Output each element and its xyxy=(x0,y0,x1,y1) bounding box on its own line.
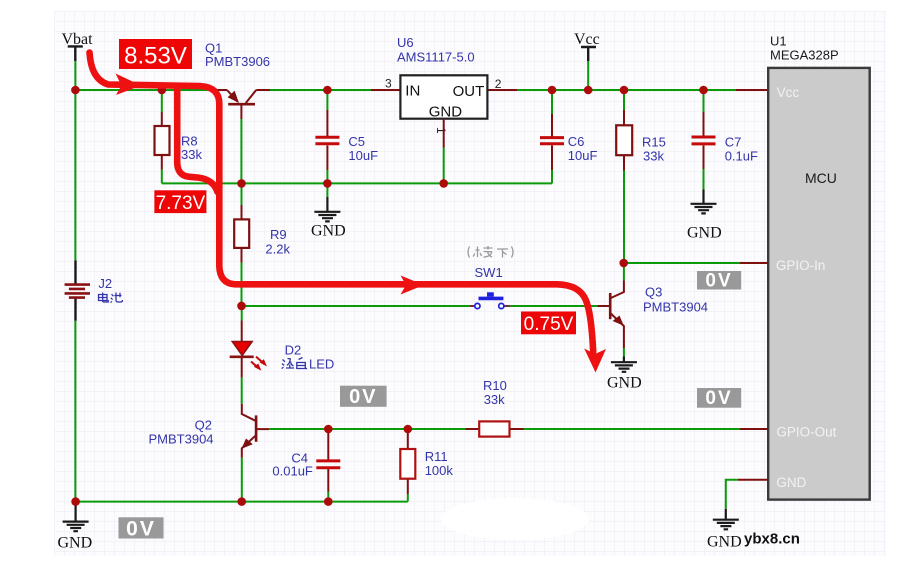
value box 8.53V xyxy=(119,39,192,70)
wire U6 GND pin xyxy=(443,119,445,184)
svg-text:0V: 0V xyxy=(349,386,377,408)
capacitor C7 xyxy=(692,90,759,190)
svg-text:10uF: 10uF xyxy=(348,148,378,163)
wire SW1 row xyxy=(242,305,598,307)
svg-text:J2: J2 xyxy=(98,276,112,291)
svg-text:33k: 33k xyxy=(484,392,505,407)
watermark blob xyxy=(441,498,589,540)
svg-text:0.75V: 0.75V xyxy=(524,314,574,335)
value box 7.73V xyxy=(154,190,206,214)
svg-text:R15: R15 xyxy=(642,135,666,150)
svg-text:Q3: Q3 xyxy=(645,285,662,300)
resistor R11 xyxy=(400,429,453,502)
capacitor C6 xyxy=(540,90,597,183)
svg-text:GND: GND xyxy=(607,375,642,392)
svg-text:C7: C7 xyxy=(725,135,742,150)
svg-text:AMS1117-5.0: AMS1117-5.0 xyxy=(397,50,475,65)
wire Q2 emitter down xyxy=(241,458,243,502)
svg-text:GND: GND xyxy=(58,535,93,552)
svg-text:GPIO-In: GPIO-In xyxy=(776,258,826,273)
measure box 0V middle xyxy=(340,386,387,408)
svg-text:0.01uF: 0.01uF xyxy=(272,464,313,479)
wire top rail pin stubs xyxy=(214,89,768,91)
ground below C7 xyxy=(687,190,722,242)
wire Q1 base down xyxy=(240,119,242,183)
battery J2 xyxy=(65,261,113,321)
svg-text:GND: GND xyxy=(707,534,742,551)
svg-text:PMBT3904: PMBT3904 xyxy=(643,300,708,315)
svg-text:C5: C5 xyxy=(348,134,365,149)
svg-text:GPIO-Out: GPIO-Out xyxy=(776,425,836,440)
label J2 battery chinese xyxy=(99,293,123,303)
annotation red flow path main xyxy=(90,53,594,353)
svg-text:10uF: 10uF xyxy=(568,148,598,163)
wire mid rail xyxy=(162,182,552,184)
svg-text:R9: R9 xyxy=(270,227,287,242)
svg-text:IN: IN xyxy=(405,83,420,100)
resistor R8 xyxy=(155,90,203,183)
svg-text:2: 2 xyxy=(495,77,502,91)
svg-text:33k: 33k xyxy=(643,149,664,164)
svg-text:LED: LED xyxy=(309,357,334,372)
annotation arrowhead 3 xyxy=(584,349,606,373)
svg-text:C6: C6 xyxy=(568,134,585,149)
svg-text:8.53V: 8.53V xyxy=(124,43,187,70)
svg-text:Vcc: Vcc xyxy=(574,31,600,48)
ground bottom left xyxy=(58,502,93,552)
svg-text:0V: 0V xyxy=(705,388,732,409)
wire Vcc to rail xyxy=(587,61,589,90)
annotation arrowhead 1 xyxy=(116,74,142,96)
svg-text:0V: 0V xyxy=(126,517,156,540)
wire top rail green xyxy=(75,89,736,91)
label pressed chinese xyxy=(468,246,513,258)
resistor R15 xyxy=(616,90,666,263)
svg-text:SW1: SW1 xyxy=(475,265,503,280)
ground below MCU xyxy=(707,509,742,551)
annotation arrowhead 2 xyxy=(401,276,425,295)
svg-text:D2: D2 xyxy=(285,343,302,358)
wire GPIO-In row xyxy=(624,262,769,264)
ground below Q3 xyxy=(607,348,642,392)
svg-text:0.1uF: 0.1uF xyxy=(725,149,758,164)
svg-text:PMBT3906: PMBT3906 xyxy=(205,54,270,69)
svg-text:U6: U6 xyxy=(397,35,414,50)
transistor Q1 PMBT3906 xyxy=(205,41,270,120)
resistor R9 xyxy=(234,183,290,306)
wire bottom rail xyxy=(76,501,408,503)
value box 0.75V xyxy=(521,312,576,336)
IC U6 AMS1117-5.0 xyxy=(397,35,487,121)
svg-text:1: 1 xyxy=(434,127,448,134)
svg-text:33k: 33k xyxy=(181,147,202,162)
svg-text:GND: GND xyxy=(311,223,346,240)
svg-text:Vcc: Vcc xyxy=(777,85,800,100)
switch SW1 xyxy=(470,265,510,309)
wire D2 anode xyxy=(241,306,243,321)
svg-text:0V: 0V xyxy=(705,271,732,292)
LED D2 xyxy=(230,321,302,378)
svg-text:7.73V: 7.73V xyxy=(156,193,206,214)
label D2 red LED chinese xyxy=(282,357,335,372)
measure box 0V gpio-in xyxy=(697,271,741,292)
svg-text:PMBT3904: PMBT3904 xyxy=(149,432,214,447)
svg-text:U1: U1 xyxy=(770,33,787,48)
svg-text:GND: GND xyxy=(776,475,806,490)
svg-text:GND: GND xyxy=(429,104,463,121)
svg-text:2.2k: 2.2k xyxy=(265,242,290,257)
svg-text:R10: R10 xyxy=(483,378,507,393)
measure box 0V bottom left xyxy=(119,517,164,540)
wire D2 to Q2 xyxy=(241,378,243,404)
svg-text:MEGA328P: MEGA328P xyxy=(770,47,839,62)
transistor Q3 PMBT3904 xyxy=(597,263,708,348)
wire MCU GND pin xyxy=(726,480,768,509)
svg-text:R11: R11 xyxy=(425,449,448,464)
svg-text:MCU: MCU xyxy=(805,170,837,186)
resistor R10 xyxy=(466,378,769,437)
wire GPIO-Out row xyxy=(269,428,739,430)
svg-text:Vbat: Vbat xyxy=(62,31,94,48)
transistor Q2 PMBT3904 xyxy=(149,404,270,458)
svg-text:3: 3 xyxy=(385,77,392,91)
measure box 0V gpio-out xyxy=(697,388,741,409)
svg-text:OUT: OUT xyxy=(453,83,485,100)
capacitor C4 xyxy=(272,429,340,502)
ground below C5 xyxy=(311,183,346,239)
svg-text:100k: 100k xyxy=(425,463,454,478)
svg-text:Q2: Q2 xyxy=(195,418,212,433)
power flag Vbat xyxy=(62,31,94,61)
power flag Vcc xyxy=(574,31,600,61)
capacitor C5 xyxy=(315,90,378,183)
annotation red flow path detour around R8 xyxy=(177,89,217,193)
svg-text:ybx8.cn: ybx8.cn xyxy=(744,531,800,548)
wire left vertical xyxy=(74,90,76,502)
wire Vbat to rail xyxy=(74,61,76,90)
svg-text:GND: GND xyxy=(687,225,722,242)
IC U1 MEGA328P MCU box xyxy=(768,33,870,499)
